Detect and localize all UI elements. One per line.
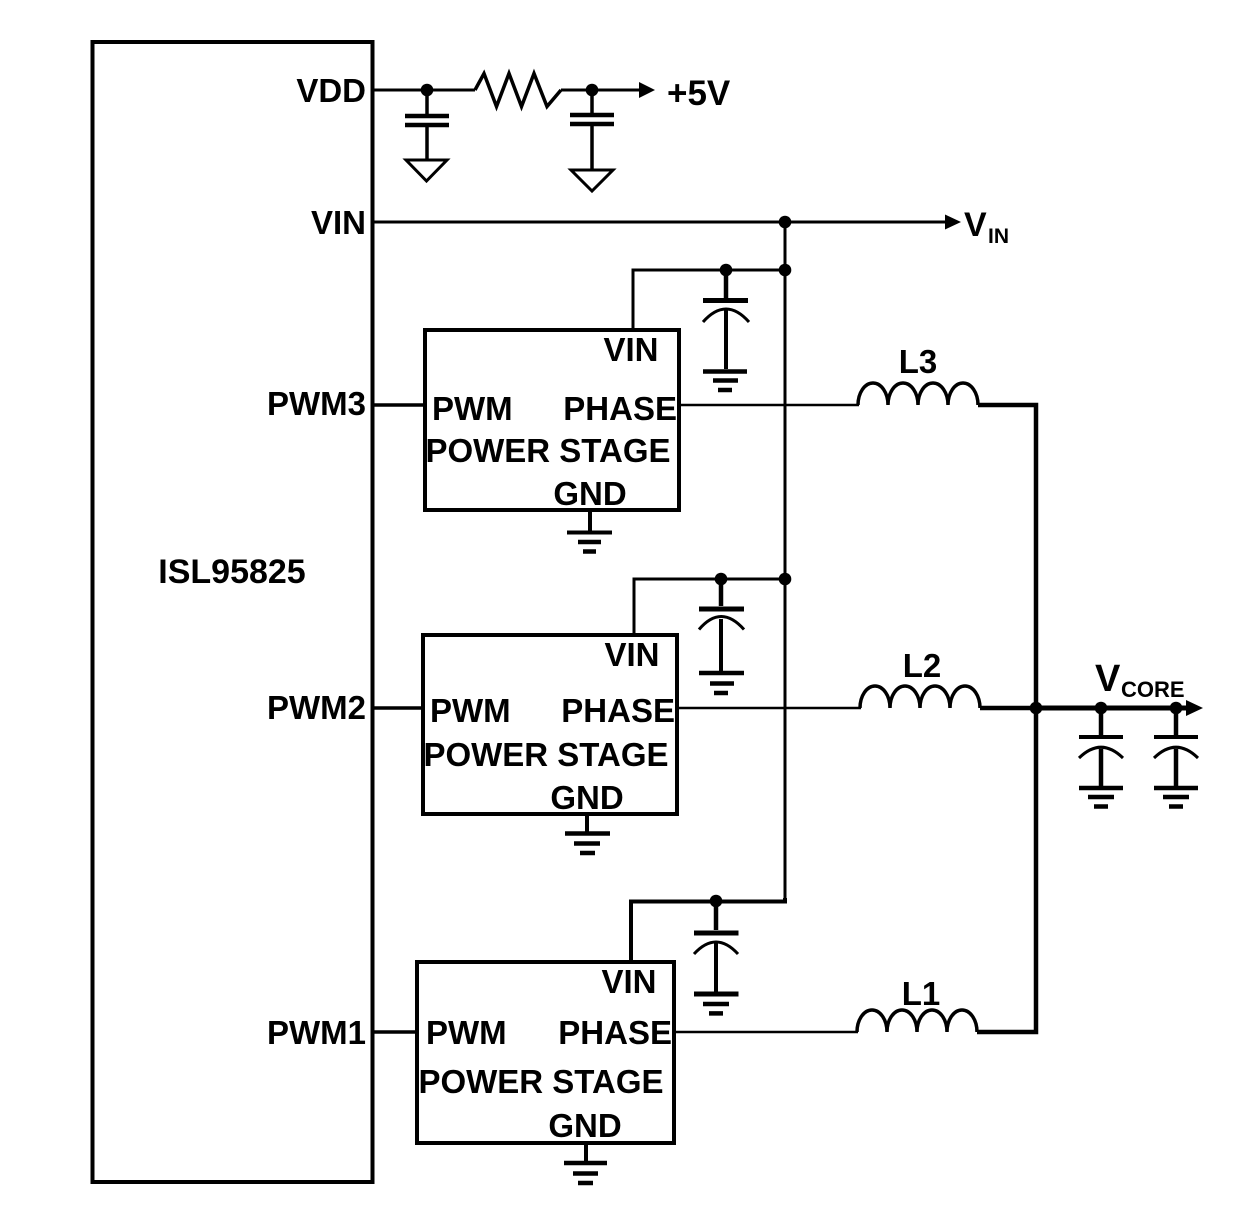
svg-text:POWER STAGE: POWER STAGE <box>423 736 668 773</box>
wire VCORE output <box>1036 706 1187 711</box>
wire L1 to output rail <box>977 708 1036 1032</box>
svg-text:V: V <box>1095 658 1121 700</box>
ground (earth) for C6 <box>1079 788 1123 807</box>
wire stage3 PHASE to L3 <box>679 404 859 407</box>
node stage2 rail junction <box>779 573 792 586</box>
svg-text:VIN: VIN <box>311 204 366 241</box>
capacitor C1 <box>405 90 449 160</box>
svg-text:GND: GND <box>548 1107 621 1144</box>
svg-text:IN: IN <box>988 225 1009 248</box>
capacitor C7 <box>1154 708 1198 788</box>
net label VIN <box>964 206 1009 248</box>
ground (triangle) for C1 <box>406 160 447 181</box>
wire stage3 VIN stem <box>633 270 785 330</box>
node VDD-C1 junction <box>421 84 434 97</box>
svg-text:PWM2: PWM2 <box>267 689 366 726</box>
svg-text:GND: GND <box>550 779 623 816</box>
svg-text:POWER STAGE: POWER STAGE <box>425 432 670 469</box>
wire stage2 GND stem <box>585 814 589 832</box>
node VDD-C2 junction <box>586 84 599 97</box>
node output rail junction <box>1030 702 1043 715</box>
svg-text:PWM1: PWM1 <box>267 1014 366 1051</box>
svg-text:L3: L3 <box>899 343 938 380</box>
svg-text:VIN: VIN <box>603 331 658 368</box>
wire stage1 PHASE to L1 <box>674 1031 858 1034</box>
svg-text:V: V <box>964 206 987 244</box>
svg-text:PWM: PWM <box>432 390 513 427</box>
resistor R1 <box>475 74 561 107</box>
ground (earth) for C4 <box>699 673 744 693</box>
ground (earth) for C5 <box>694 994 739 1013</box>
wire stage2 VIN stem <box>634 579 785 635</box>
wire VIN pin to VIN arrow <box>372 221 946 224</box>
svg-text:PWM3: PWM3 <box>267 385 366 422</box>
capacitor C6 <box>1079 708 1123 788</box>
wire L2 to output rail <box>980 706 1036 711</box>
svg-text:POWER STAGE: POWER STAGE <box>418 1063 663 1100</box>
capacitor C4 <box>699 579 744 671</box>
wire PWM1 pin to stage1 <box>372 1030 417 1034</box>
node VCORE C7 junction <box>1170 702 1183 715</box>
capacitor C2 <box>570 90 614 170</box>
svg-text:PHASE: PHASE <box>563 390 677 427</box>
capacitor C3 <box>703 270 749 369</box>
svg-text:ISL95825: ISL95825 <box>158 553 305 591</box>
node VCORE C6 junction <box>1095 702 1108 715</box>
ground (earth) for stage1 GND <box>564 1163 607 1183</box>
node stage3 cap junction <box>720 264 733 277</box>
wire stage3 GND stem <box>588 510 592 532</box>
ground (earth) for stage2 GND <box>565 834 610 854</box>
wire stage1 GND stem <box>584 1143 588 1161</box>
ground (earth) for C3 <box>703 372 747 391</box>
svg-text:L2: L2 <box>903 647 942 684</box>
arrow to VCORE <box>1186 700 1203 716</box>
svg-text:L1: L1 <box>902 975 941 1012</box>
power stage U4 (bottom) body <box>417 962 674 1144</box>
ground (earth) for stage3 GND <box>567 533 612 552</box>
wire PWM2 pin to stage2 <box>372 706 423 710</box>
svg-text:PHASE: PHASE <box>558 1014 672 1051</box>
ground (earth) for C7 <box>1154 788 1198 807</box>
svg-text:VIN: VIN <box>604 636 659 673</box>
node VIN rail junction <box>779 216 792 229</box>
net label VCORE <box>1095 658 1185 702</box>
wire VIN vertical rail <box>784 222 787 901</box>
ground (triangle) for C2 <box>571 170 613 191</box>
svg-text:PHASE: PHASE <box>561 692 675 729</box>
wire L3 to output rail <box>978 405 1036 708</box>
svg-text:VIN: VIN <box>601 963 656 1000</box>
power stage U2 (top) body <box>425 330 679 512</box>
arrow to +5V <box>639 82 655 98</box>
inductor L2 <box>860 647 980 708</box>
svg-text:+5V: +5V <box>667 74 731 113</box>
wire PWM3 pin to stage3 <box>372 403 425 407</box>
power stage U3 (middle) body <box>423 635 677 816</box>
svg-text:VDD: VDD <box>296 72 366 109</box>
node stage3 rail junction <box>779 264 792 277</box>
svg-text:PWM: PWM <box>430 692 511 729</box>
inductor L1 <box>857 975 977 1032</box>
wire resistor to +5V arrow <box>561 89 640 92</box>
capacitor C5 <box>694 901 739 992</box>
wire stage1 VIN stem from rail <box>631 898 785 962</box>
arrow to VIN net <box>945 215 961 230</box>
node stage2 cap junction <box>715 573 728 586</box>
wire VDD pin to resistor <box>372 89 475 92</box>
inductor L3 <box>858 343 978 405</box>
svg-text:PWM: PWM <box>426 1014 507 1051</box>
IC U1 ISL95825 body <box>93 42 373 1182</box>
svg-text:GND: GND <box>553 475 626 512</box>
wire stage2 PHASE to L2 <box>677 707 861 710</box>
svg-text:CORE: CORE <box>1121 677 1185 702</box>
node stage1 cap junction <box>710 895 723 908</box>
